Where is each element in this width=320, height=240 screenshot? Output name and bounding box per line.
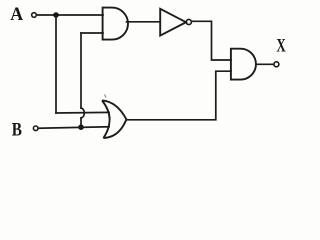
input terminal B (33, 126, 38, 131)
wire B branch vertical upper segment (80, 33, 82, 108)
wire B branch to AND U1 lower input (81, 32, 103, 34)
wire A branch to OR gate U4 top input (56, 111, 109, 114)
svg-text:X: X (276, 36, 286, 57)
wire B branch vertical lower segment (80, 118, 82, 128)
output terminal X (274, 62, 279, 67)
wire NOT U2 to AND U3 top input (192, 21, 232, 60)
junction dot on wire B (78, 124, 84, 130)
wire AND U1 to NOT U2 (127, 21, 161, 23)
wire B to OR gate U4 (38, 127, 109, 128)
stray ink mark above OR gate (105, 95, 107, 98)
wire A branch vertical down (55, 15, 57, 113)
AND gate U1 (103, 8, 128, 40)
svg-text:A: A (10, 4, 23, 25)
NOT gate U2 triangle (160, 9, 186, 36)
svg-text:B: B (12, 119, 22, 140)
input terminal A (32, 13, 37, 18)
OR gate U4 (102, 100, 126, 138)
wire A to AND gate U1 (37, 14, 103, 16)
wire hop over A branch wire (81, 108, 84, 118)
AND gate U3 (231, 49, 256, 80)
junction dot on wire A (53, 12, 59, 18)
wire OR U4 to AND U3 lower input (127, 71, 231, 120)
NOT gate U2 bubble (186, 19, 191, 24)
wire AND U3 to output terminal X (256, 63, 274, 65)
